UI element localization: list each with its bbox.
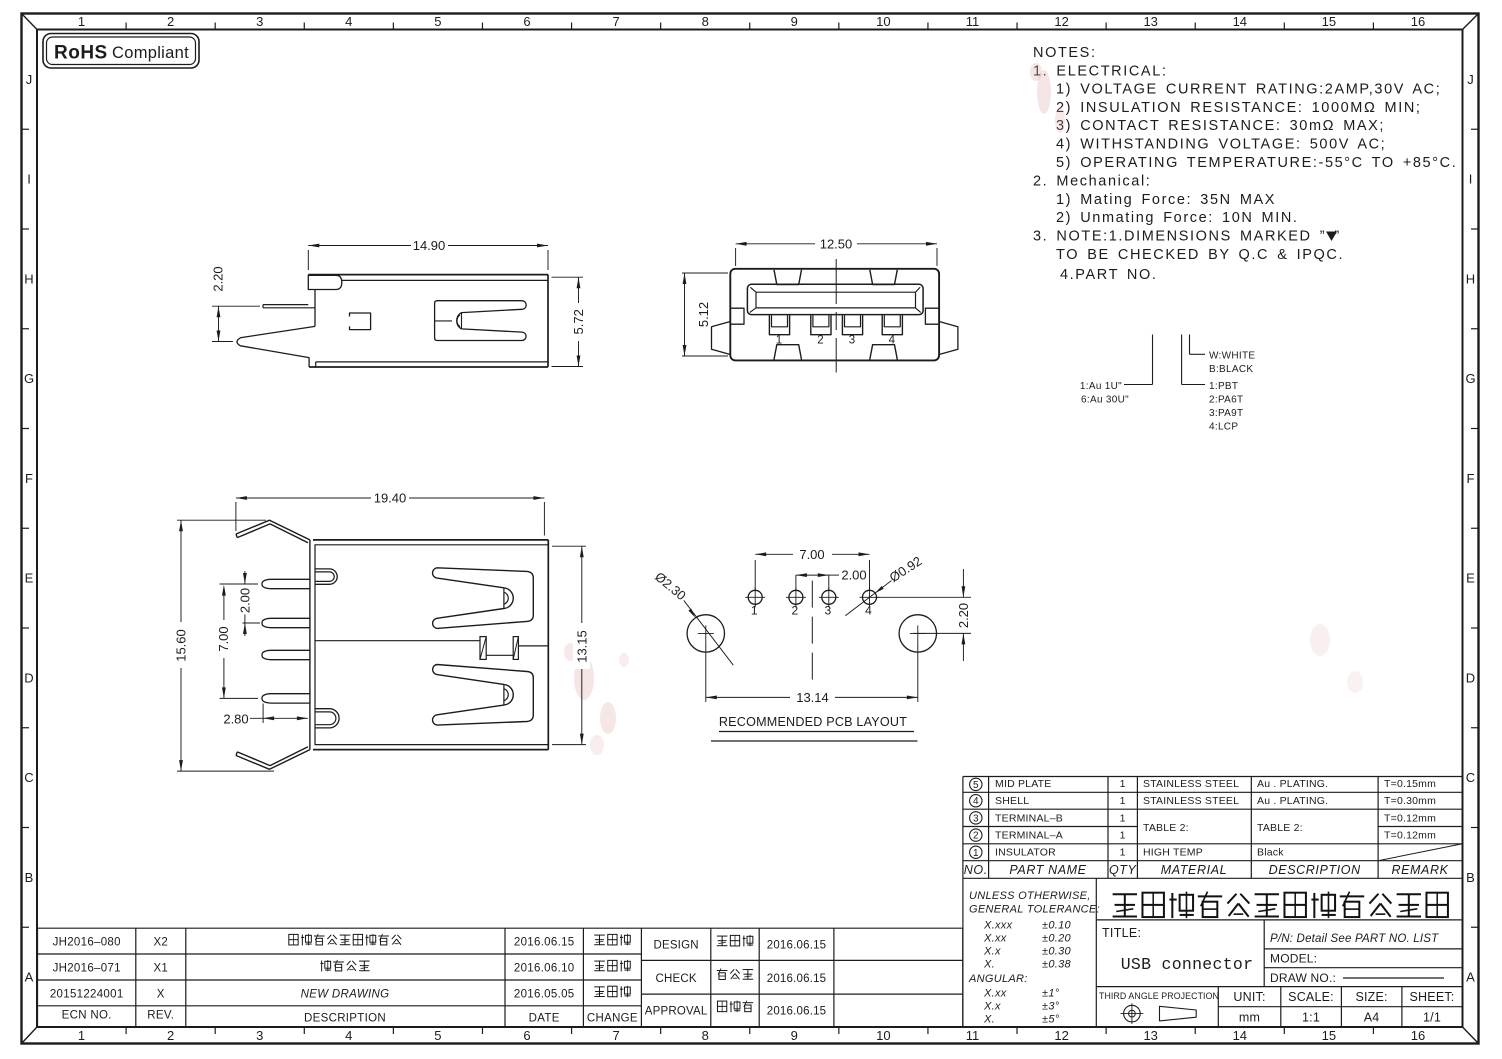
revision chinese descriptions xyxy=(289,934,631,997)
svg-text:1) VOLTAGE CURRENT RATING:2AMP: 1) VOLTAGE CURRENT RATING:2AMP,30V AC; xyxy=(1056,82,1441,98)
pcb layout small holes xyxy=(745,587,879,607)
svg-text:1: 1 xyxy=(78,1028,85,1043)
svg-text:3: 3 xyxy=(973,813,979,824)
top view middle latch plates xyxy=(315,637,548,660)
svg-text:JH2016–071: JH2016–071 xyxy=(53,963,121,975)
svg-text:19.40: 19.40 xyxy=(374,491,407,506)
dimension 15.60 xyxy=(172,520,274,771)
svg-text:2: 2 xyxy=(973,831,979,842)
svg-text:X.xx: X.xx xyxy=(983,933,1007,945)
parts list table grid xyxy=(963,777,1463,879)
svg-text:G: G xyxy=(24,371,34,386)
svg-text:±0.20: ±0.20 xyxy=(1042,933,1072,945)
svg-text:PART NAME: PART NAME xyxy=(1009,863,1086,877)
svg-text:3: 3 xyxy=(849,335,855,347)
svg-text:14: 14 xyxy=(1233,1028,1247,1043)
svg-text:6: 6 xyxy=(523,14,530,29)
svg-text:E: E xyxy=(1466,571,1475,586)
company name (chinese) xyxy=(1113,892,1448,919)
svg-text:±5°: ±5° xyxy=(1042,1014,1060,1026)
svg-text:2016.06.15: 2016.06.15 xyxy=(767,1005,827,1017)
dimension 5.72 xyxy=(552,277,587,366)
svg-text:INSULATOR: INSULATOR xyxy=(995,847,1056,859)
dimension 12.50 xyxy=(736,236,937,266)
revision table text xyxy=(50,937,638,1025)
svg-text:5: 5 xyxy=(434,14,441,29)
RoHS Compliant label xyxy=(43,34,199,69)
svg-text:2. Mechanical:: 2. Mechanical: xyxy=(1033,174,1151,190)
svg-text:2) INSULATION RESISTANCE: 1000: 2) INSULATION RESISTANCE: 1000MΩ MIN; xyxy=(1056,100,1422,116)
dimension 19.40 xyxy=(236,491,545,536)
svg-text:C: C xyxy=(1466,770,1475,785)
svg-text:I: I xyxy=(1469,172,1473,187)
svg-text:2016.06.15: 2016.06.15 xyxy=(767,973,827,985)
svg-text:3: 3 xyxy=(824,604,831,618)
svg-text:SIZE:: SIZE: xyxy=(1355,990,1387,1004)
front view mounting wings xyxy=(712,322,958,355)
parts list cell text xyxy=(995,778,1436,858)
dimension 5.12 xyxy=(682,273,728,356)
pcb layout large holes xyxy=(687,615,936,652)
svg-text:9: 9 xyxy=(791,14,798,29)
svg-text:5: 5 xyxy=(973,780,979,791)
svg-text:±0.38: ±0.38 xyxy=(1042,959,1072,971)
svg-text:X.x: X.x xyxy=(983,946,1001,958)
svg-text:RoHS: RoHS xyxy=(54,43,108,64)
top view lower clip hook xyxy=(315,709,339,728)
svg-text:1:Au 1U": 1:Au 1U" xyxy=(1080,381,1122,392)
svg-text:DRAW NO.:: DRAW NO.: xyxy=(1270,971,1336,985)
svg-text:12.50: 12.50 xyxy=(820,236,853,251)
svg-text:X.xx: X.xx xyxy=(983,988,1007,1000)
svg-text:3. NOTE:1.DIMENSIONS MARKED ”: 3. NOTE:1.DIMENSIONS MARKED ” ” xyxy=(1033,229,1341,245)
svg-text:7: 7 xyxy=(612,14,619,29)
svg-text:4: 4 xyxy=(973,796,979,807)
svg-text:NO.: NO. xyxy=(964,863,988,877)
svg-text:SHELL: SHELL xyxy=(995,795,1029,807)
svg-text:15: 15 xyxy=(1322,1028,1336,1043)
pcb layout hole numbers xyxy=(751,604,872,618)
svg-text:14: 14 xyxy=(1233,14,1247,29)
svg-text:TERMINAL–A: TERMINAL–A xyxy=(995,830,1063,842)
svg-text:THIRD ANGLE PROJECTION: THIRD ANGLE PROJECTION xyxy=(1099,991,1219,1001)
marked triangle symbol xyxy=(1326,232,1337,242)
side view shell body xyxy=(237,275,548,367)
svg-text:11: 11 xyxy=(966,14,980,29)
svg-text:UNLESS OTHERWISE,: UNLESS OTHERWISE, xyxy=(969,890,1091,902)
side view spring contact fork xyxy=(436,567,438,569)
svg-text:6:Au 30U": 6:Au 30U" xyxy=(1081,395,1129,406)
top view lower contact fork xyxy=(433,665,534,726)
dimension 7.00 pcb xyxy=(755,547,869,591)
side view middle notch xyxy=(350,313,371,330)
svg-text:STAINLESS STEEL: STAINLESS STEEL xyxy=(1143,778,1239,790)
pink scan speckles xyxy=(564,63,1363,755)
svg-text:4.PART NO.: 4.PART NO. xyxy=(1060,267,1157,283)
svg-text:MID PLATE: MID PLATE xyxy=(995,778,1051,790)
dimension 14.90 xyxy=(308,238,548,270)
svg-text:16: 16 xyxy=(1411,1028,1425,1043)
side view fork outline xyxy=(435,301,527,341)
svg-text:5: 5 xyxy=(434,1028,441,1043)
unit scale size sheet xyxy=(1233,990,1454,1025)
svg-text:15: 15 xyxy=(1322,14,1336,29)
recommended pcb layout caption xyxy=(711,715,918,741)
svg-text:B: B xyxy=(1466,870,1475,885)
front view bottom notches xyxy=(774,345,897,360)
svg-text:4: 4 xyxy=(865,604,872,618)
svg-text:1) Mating Force: 35N MAX: 1) Mating Force: 35N MAX xyxy=(1056,192,1276,208)
svg-text:SCALE:: SCALE: xyxy=(1288,990,1334,1004)
front view top notches xyxy=(774,270,897,285)
svg-text:1: 1 xyxy=(1120,847,1126,859)
svg-text:DESCRIPTION: DESCRIPTION xyxy=(1269,863,1361,877)
svg-text:8: 8 xyxy=(702,14,709,29)
svg-text:13.14: 13.14 xyxy=(796,690,829,705)
svg-text:J: J xyxy=(26,72,33,87)
svg-text:13: 13 xyxy=(1143,1028,1157,1043)
svg-text:5) OPERATING TEMPERATURE:-55°C: 5) OPERATING TEMPERATURE:-55°C TO +85°C. xyxy=(1056,155,1457,171)
svg-text:2.80: 2.80 xyxy=(223,712,248,727)
insulator remark diagonal xyxy=(1378,844,1462,861)
front view contact numbers xyxy=(776,335,896,347)
svg-text:1:PBT: 1:PBT xyxy=(1209,381,1238,392)
svg-text:2.00: 2.00 xyxy=(841,568,866,583)
svg-text:2016.06.15: 2016.06.15 xyxy=(767,940,827,952)
svg-text:UNIT:: UNIT: xyxy=(1233,990,1265,1004)
svg-text:4) WITHSTANDING VOLTAGE: 500V: 4) WITHSTANDING VOLTAGE: 500V AC; xyxy=(1056,137,1386,153)
svg-text:12: 12 xyxy=(1054,14,1068,29)
dimension 2.00 pins xyxy=(237,571,260,636)
part number tree labels xyxy=(1080,351,1255,433)
svg-text:Au . PLATING.: Au . PLATING. xyxy=(1257,795,1328,807)
svg-text:9: 9 xyxy=(791,1028,798,1043)
svg-text:DESCRIPTION: DESCRIPTION xyxy=(304,1012,386,1024)
svg-text:MODEL:: MODEL: xyxy=(1270,952,1317,966)
svg-text:F: F xyxy=(1467,471,1475,486)
svg-text:2016.06.10: 2016.06.10 xyxy=(514,963,575,975)
top view upper bent flange xyxy=(236,520,310,543)
svg-text:10: 10 xyxy=(876,14,890,29)
svg-text:X1: X1 xyxy=(153,963,168,975)
svg-text:2: 2 xyxy=(817,335,823,347)
approval block text xyxy=(645,940,827,1018)
top view upper clip hook xyxy=(315,569,337,584)
svg-text:2) Unmating Force: 10N MIN.: 2) Unmating Force: 10N MIN. xyxy=(1056,210,1299,226)
svg-text:ECN NO.: ECN NO. xyxy=(62,1009,112,1021)
dimension 2.00 pcb xyxy=(796,568,867,591)
general tolerance text xyxy=(968,890,1100,1026)
svg-text:4: 4 xyxy=(345,1028,352,1043)
svg-text:20151224001: 20151224001 xyxy=(50,988,124,1000)
svg-text:G: G xyxy=(1465,371,1475,386)
row letters right xyxy=(1465,72,1475,985)
front view tongue xyxy=(747,284,923,314)
svg-text:H: H xyxy=(1466,271,1475,286)
svg-text:B: B xyxy=(25,870,34,885)
svg-text:CHECK: CHECK xyxy=(655,973,696,985)
svg-text:2: 2 xyxy=(167,14,174,29)
svg-text:1: 1 xyxy=(78,14,85,29)
svg-text:7.00: 7.00 xyxy=(799,547,824,562)
part number tree lines xyxy=(1124,335,1205,385)
svg-text:DATE: DATE xyxy=(529,1012,560,1024)
dimension 2.20 xyxy=(211,266,261,341)
svg-text:14.90: 14.90 xyxy=(413,238,446,253)
front view side holes xyxy=(730,308,939,324)
svg-text:2016.06.15: 2016.06.15 xyxy=(514,937,575,949)
svg-text:TABLE 2:: TABLE 2: xyxy=(1143,822,1189,834)
svg-text:MATERIAL: MATERIAL xyxy=(1161,863,1227,877)
svg-text:TABLE 2:: TABLE 2: xyxy=(1257,822,1303,834)
svg-text:NOTES:: NOTES: xyxy=(1033,45,1097,61)
svg-text:GENERAL TOLERANCE:: GENERAL TOLERANCE: xyxy=(969,904,1100,916)
notes text block xyxy=(1033,45,1457,283)
svg-text:16: 16 xyxy=(1411,14,1425,29)
approval block grid xyxy=(641,928,962,1027)
svg-text:3: 3 xyxy=(256,1028,263,1043)
svg-text:D: D xyxy=(24,670,33,685)
svg-text:I: I xyxy=(27,172,31,187)
svg-text:7.00: 7.00 xyxy=(216,626,231,651)
svg-text:X.x: X.x xyxy=(983,1001,1001,1013)
svg-text:11: 11 xyxy=(966,1028,980,1043)
svg-text:1: 1 xyxy=(776,335,782,347)
svg-text:C: C xyxy=(24,770,33,785)
column ticks top and bottom xyxy=(126,23,1373,1035)
front view center line xyxy=(835,259,837,373)
svg-text:1. ELECTRICAL:: 1. ELECTRICAL: xyxy=(1033,64,1168,80)
svg-text:T=0.15mm: T=0.15mm xyxy=(1384,778,1436,790)
svg-text:4:LCP: 4:LCP xyxy=(1209,422,1238,433)
parts list balloons xyxy=(970,778,982,859)
svg-text:A: A xyxy=(25,970,34,985)
pcb layout dashed centerline xyxy=(811,581,813,681)
svg-text:REV.: REV. xyxy=(147,1009,174,1021)
row letters left xyxy=(24,72,34,985)
svg-text:X.xxx: X.xxx xyxy=(983,920,1013,932)
svg-text:5.72: 5.72 xyxy=(571,309,586,334)
svg-text:2:PA6T: 2:PA6T xyxy=(1209,395,1243,406)
svg-text:TITLE:: TITLE: xyxy=(1102,926,1141,940)
svg-text:1:1: 1:1 xyxy=(1302,1011,1320,1025)
svg-text:T=0.30mm: T=0.30mm xyxy=(1384,795,1436,807)
svg-text:T=0.12mm: T=0.12mm xyxy=(1384,830,1436,842)
svg-text:15.60: 15.60 xyxy=(174,629,189,662)
svg-text:RECOMMENDED PCB LAYOUT: RECOMMENDED PCB LAYOUT xyxy=(719,715,907,729)
column numbers top xyxy=(78,14,1425,29)
svg-text:1/1: 1/1 xyxy=(1423,1011,1441,1025)
svg-text:3) CONTACT RESISTANCE: 30mΩ MA: 3) CONTACT RESISTANCE: 30mΩ MAX; xyxy=(1056,118,1385,134)
svg-text:P/N: Detail See PART NO. LIST: P/N: Detail See PART NO. LIST xyxy=(1270,933,1439,945)
svg-text:6: 6 xyxy=(523,1028,530,1043)
svg-text:W:WHITE: W:WHITE xyxy=(1209,351,1255,362)
title label xyxy=(1102,926,1141,940)
svg-text:±1°: ±1° xyxy=(1042,988,1060,1000)
approval signatures (chinese) xyxy=(717,935,753,1012)
svg-text:1: 1 xyxy=(1120,830,1126,842)
svg-text:ANGULAR:: ANGULAR: xyxy=(968,973,1028,985)
column numbers bottom xyxy=(78,1028,1425,1043)
dimension 7.00 xyxy=(215,584,258,698)
usb connector title xyxy=(1121,955,1254,974)
svg-text:X.: X. xyxy=(983,1014,995,1026)
svg-text:REMARK: REMARK xyxy=(1391,863,1448,877)
row ticks left and right xyxy=(22,129,1479,927)
svg-text:HIGH TEMP: HIGH TEMP xyxy=(1143,847,1203,859)
svg-text:1: 1 xyxy=(751,604,758,618)
svg-text:2: 2 xyxy=(167,1028,174,1043)
top view lower bent flange xyxy=(236,747,310,770)
svg-text:2.20: 2.20 xyxy=(956,603,971,628)
svg-text:X: X xyxy=(157,988,165,1000)
dimension 2.20 pcb xyxy=(877,569,972,661)
svg-text:F: F xyxy=(25,471,33,486)
svg-text:4: 4 xyxy=(889,335,896,347)
dimension 2.80 xyxy=(223,704,308,727)
parts list header xyxy=(964,863,1449,877)
svg-text:STAINLESS STEEL: STAINLESS STEEL xyxy=(1143,795,1239,807)
svg-text:13.15: 13.15 xyxy=(574,630,589,663)
svg-text:A4: A4 xyxy=(1364,1011,1380,1025)
front view outer shell xyxy=(730,269,939,361)
draw no line xyxy=(1343,977,1444,979)
title block grid xyxy=(963,878,1463,1027)
svg-text:Compliant: Compliant xyxy=(112,44,189,62)
svg-text:CHANGE: CHANGE xyxy=(587,1012,638,1024)
top view terminal pins xyxy=(262,579,310,703)
svg-text:JH2016–080: JH2016–080 xyxy=(53,937,121,949)
svg-text:NEW DRAWING: NEW DRAWING xyxy=(301,988,390,1000)
svg-text:2.20: 2.20 xyxy=(211,266,226,291)
svg-text:1: 1 xyxy=(973,848,979,859)
svg-text:12: 12 xyxy=(1054,1028,1068,1043)
svg-text:E: E xyxy=(25,571,34,586)
svg-text:X2: X2 xyxy=(153,937,168,949)
leader diameter 2.30 xyxy=(652,569,733,665)
third angle projection xyxy=(1099,991,1219,1024)
dimension 13.14 xyxy=(706,641,918,704)
svg-text:Black: Black xyxy=(1257,847,1284,859)
svg-text:SHEET:: SHEET: xyxy=(1410,990,1455,1004)
top view shell body xyxy=(310,540,548,750)
svg-text:APPROVAL: APPROVAL xyxy=(645,1005,708,1017)
svg-text:TO BE CHECKED BY Q.C & IPQC.: TO BE CHECKED BY Q.C & IPQC. xyxy=(1056,247,1344,263)
svg-text:10: 10 xyxy=(876,1028,890,1043)
svg-text:±3°: ±3° xyxy=(1042,1001,1060,1013)
svg-text:1: 1 xyxy=(1120,812,1126,824)
svg-text:7: 7 xyxy=(612,1028,619,1043)
svg-text:2: 2 xyxy=(792,604,799,618)
front view contacts 1-4 xyxy=(769,315,902,334)
svg-text:13: 13 xyxy=(1143,14,1157,29)
svg-text:5.12: 5.12 xyxy=(696,302,711,327)
svg-text:4: 4 xyxy=(345,14,352,29)
svg-text:2.00: 2.00 xyxy=(237,588,252,613)
svg-text:8: 8 xyxy=(702,1028,709,1043)
revision table grid xyxy=(38,928,963,1027)
svg-text:B:BLACK: B:BLACK xyxy=(1209,364,1253,375)
svg-text:1: 1 xyxy=(1120,778,1126,790)
svg-text:mm: mm xyxy=(1239,1011,1260,1025)
svg-text:1: 1 xyxy=(1120,795,1126,807)
svg-text:2016.05.05: 2016.05.05 xyxy=(514,988,575,1000)
svg-text:H: H xyxy=(24,271,33,286)
svg-text:TERMINAL–B: TERMINAL–B xyxy=(995,812,1063,824)
svg-text:±0.10: ±0.10 xyxy=(1042,920,1072,932)
svg-text:DESIGN: DESIGN xyxy=(653,940,698,952)
svg-text:T=0.12mm: T=0.12mm xyxy=(1384,812,1436,824)
svg-text:3: 3 xyxy=(256,14,263,29)
pn model draw rows xyxy=(1270,933,1439,985)
svg-text:A: A xyxy=(1466,970,1475,985)
svg-text:±0.30: ±0.30 xyxy=(1042,946,1072,958)
dimension 13.15 xyxy=(552,546,590,744)
svg-text:D: D xyxy=(1466,670,1475,685)
svg-text:J: J xyxy=(1467,72,1474,87)
svg-text:Au . PLATING.: Au . PLATING. xyxy=(1257,778,1328,790)
top view upper contact fork xyxy=(433,568,534,629)
leader diameter 0.92 xyxy=(845,553,924,616)
svg-text:QTY: QTY xyxy=(1109,863,1138,877)
svg-text:X.: X. xyxy=(983,959,995,971)
svg-text:USB connector: USB connector xyxy=(1121,955,1254,974)
svg-text:3:PA9T: 3:PA9T xyxy=(1209,408,1243,419)
